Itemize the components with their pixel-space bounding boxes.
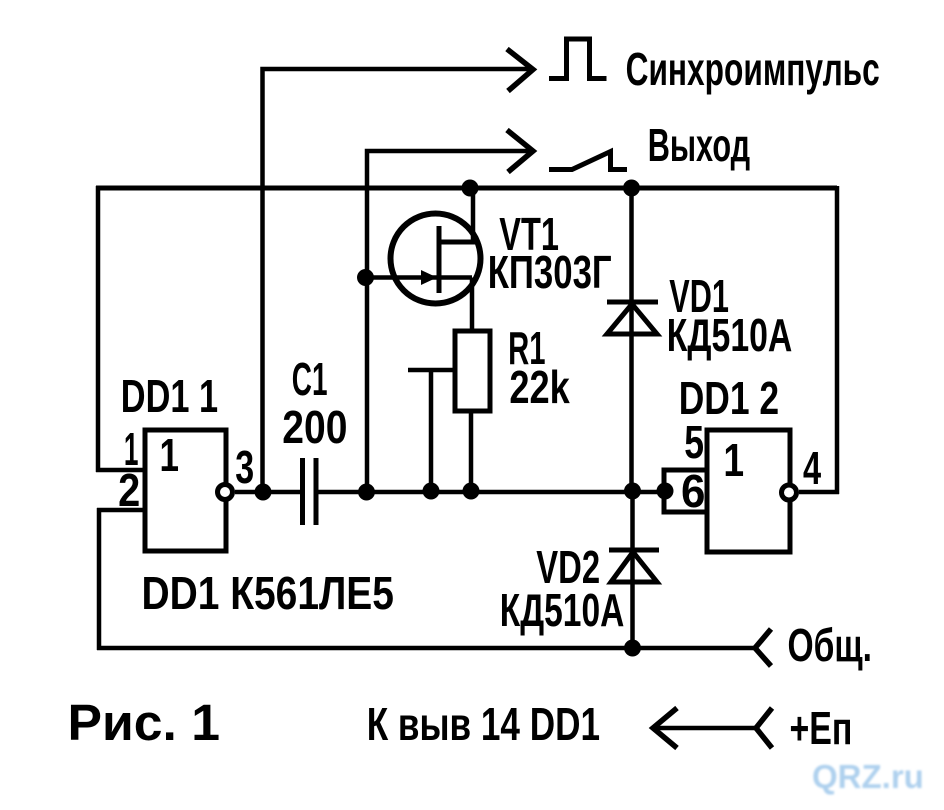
wire +En feed line [655,726,756,731]
pin 4 label [803,444,821,495]
label 22k [509,362,570,413]
diode VD2 [609,550,659,582]
wire right vertical to rail [835,186,840,494]
sawtooth symbol [549,152,627,170]
junction node and T bias [423,483,440,500]
junction node and pin 6 box [657,483,674,500]
svg-text:6: 6 [681,465,705,517]
wire pin 1 stub of DD1.1 [96,468,146,473]
transistor VT1 body [391,214,481,304]
pin 1 label [124,423,139,475]
label R1 [508,323,545,374]
svg-text:Рис. 1: Рис. 1 [68,694,221,751]
wire gate bias T horizontal [408,368,455,373]
node ground connector arrow [755,629,771,666]
wire VT1 source down to R1 [470,278,475,334]
wire pin 2 stub of DD1.1 [97,508,146,513]
wire R1 bottom to node [469,411,474,492]
svg-text:Выход: Выход [648,121,751,172]
node +En connector arrow [756,708,772,748]
svg-text:3: 3 [235,441,254,493]
gate DD1.1 body [145,429,226,551]
label 200 [282,402,347,454]
label К выв 14 DD1 [367,698,600,750]
wire node line right of C1 [318,490,665,495]
pins 5/6 tie box [664,470,707,512]
wire left vertical from rail to pin 1 [96,186,101,472]
svg-text:DD1 1: DD1 1 [121,370,218,422]
capacitor C1 [303,458,317,525]
svg-text:QRZ.ru: QRZ.ru [812,758,924,795]
pulse symbol [549,39,607,79]
svg-text:4: 4 [803,444,821,495]
junction node and VD branch [624,483,641,500]
watermark QRZ.ru [812,758,924,795]
wire sync line vertical and horizontal [263,69,532,492]
wire ground rail [97,646,755,651]
wire top supply rail [96,186,837,191]
svg-text:К выв 14 DD1: К выв 14 DD1 [367,698,600,750]
junction node and sync line [255,484,272,501]
label C1 [292,355,328,406]
wire VT1 drain vertical to rail [471,186,476,242]
svg-text:Общ.: Общ. [788,620,873,671]
wire pin 4 to right vertical [799,490,839,495]
svg-text:200: 200 [282,402,347,454]
label КП303Г [488,246,612,298]
node DD1.2 output bubble [782,485,797,500]
node VT1 gate arrow [421,270,437,285]
label DD1 2 [679,373,779,425]
svg-text:DD1 К561ЛЕ5: DD1 К561ЛЕ5 [142,568,394,620]
wire VD1 branch vertical [629,186,634,492]
wire node line left of C1 [235,490,300,495]
pin 2 label [118,465,140,516]
label КД510А VD2 [500,585,625,636]
svg-text:КП303Г: КП303Г [488,246,612,298]
label DD1 1 [121,370,218,422]
node sync arrowhead [507,49,533,91]
pin 3 label [235,441,254,493]
svg-text:1: 1 [160,429,179,481]
diode VD1 [607,302,658,334]
junction ground rail and VD2 [624,640,641,657]
wire VT1 gate line from node tap [365,275,472,280]
junction top rail and VD1 [623,180,640,197]
junction node and output line [358,484,375,501]
junction node and R1 [463,483,480,500]
svg-text:1: 1 [723,434,744,486]
svg-text:C1: C1 [292,355,328,406]
label Общ. [788,620,873,671]
label VT1 [499,210,559,261]
svg-text:5: 5 [684,417,704,468]
svg-text:22k: 22k [509,362,570,413]
wire output line vertical and horizontal [367,151,531,492]
pin 6 label [681,465,705,517]
node output arrowhead [507,130,533,172]
wire left lower vertical pin2 to ground rail [97,508,102,650]
resistor R1 [455,331,490,411]
label Рис. 1 [68,694,221,751]
label КД510А VD1 [667,309,793,361]
label Синхроимпульс [626,44,880,95]
wire gate bias T vertical to node [429,370,434,492]
label VD1 [669,272,729,323]
label VD2 [536,543,600,594]
pin 5 label [684,417,704,468]
svg-text:КД510А: КД510А [500,585,625,636]
label +Eп [790,702,853,754]
label Выход [648,121,751,172]
junction top rail and VT1 drain [462,180,479,197]
wire VD2 branch vertical [630,492,635,650]
gate DD1.2 body [707,430,790,552]
svg-text:2: 2 [118,465,140,516]
svg-text:Синхроимпульс: Синхроимпульс [626,44,880,95]
node +En left arrowhead [653,708,677,748]
junction gate tap on output line [357,269,374,286]
svg-text:КД510А: КД510А [667,309,793,361]
node DD1.1 output bubble [218,485,233,500]
label DD1 К561ЛЕ5 [142,568,394,620]
svg-text:+Eп: +Eп [790,702,853,754]
